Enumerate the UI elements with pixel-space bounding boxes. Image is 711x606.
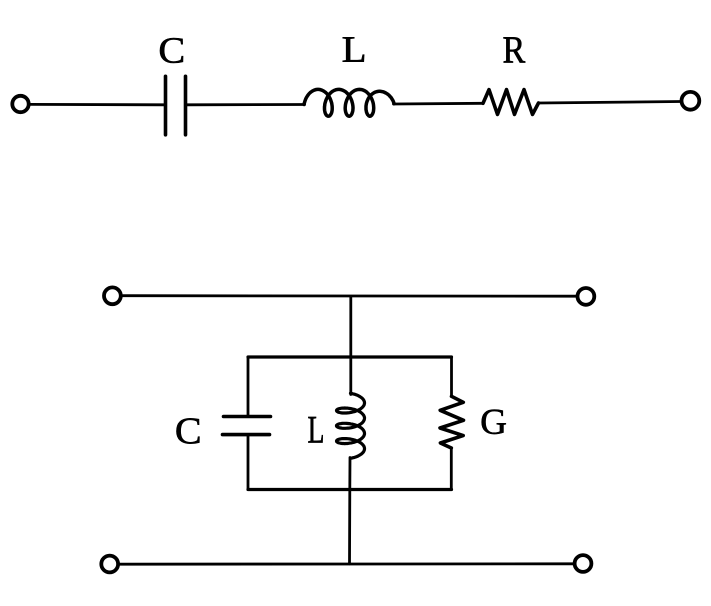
label G (bottom circuit) <box>482 410 506 434</box>
label R (top circuit) <box>504 37 526 62</box>
label C (bottom circuit) <box>177 418 200 443</box>
wire: top stem from rail to parallel network <box>349 297 352 357</box>
label L (top circuit) <box>343 37 364 61</box>
wire: right branch lower segment (resistor to bottom bus) <box>450 448 453 490</box>
terminal right (top circuit) <box>682 92 700 110</box>
inductor L (series, 3-loop coil) <box>304 89 394 116</box>
resistor G (shunt vertical zigzag) <box>440 396 464 448</box>
terminal bottom-left (bottom circuit) <box>101 556 118 573</box>
wire: middle branch lower segment (inductor to bottom bus) <box>348 458 351 490</box>
terminal bottom-right (bottom circuit) <box>575 555 592 572</box>
wire: inductor L to resistor R <box>394 102 484 105</box>
label L (bottom circuit) <box>308 417 322 443</box>
wire: bottom stem from parallel network to bottom rail <box>348 490 351 564</box>
wire: left branch lower segment (capacitor to bottom bus) <box>247 435 250 490</box>
wire: resistor R to right terminal <box>539 102 682 104</box>
wire: left terminal to capacitor C <box>29 103 164 106</box>
wire: middle branch upper segment (to inductor) <box>349 357 352 395</box>
wire: bottom bus bar of parallel network <box>248 488 452 491</box>
resistor R (series zigzag) <box>483 90 539 115</box>
wire: capacitor C to inductor L <box>187 103 305 106</box>
wire: bottom rail <box>119 562 574 565</box>
label C (top circuit) <box>160 38 183 63</box>
terminal top-left (bottom circuit) <box>104 287 121 304</box>
terminal left (top circuit) <box>12 96 28 112</box>
capacitor C (shunt, horizontal plates) <box>224 415 271 419</box>
wire: top rail <box>121 294 576 297</box>
wire: right branch upper segment (to resistor G) <box>450 357 453 396</box>
wire: left branch upper segment (to capacitor) <box>247 357 250 417</box>
terminal top-right (bottom circuit) <box>578 288 595 305</box>
inductor L (shunt, 3-loop vertical coil) <box>337 393 365 458</box>
wire: top bus bar of parallel network <box>248 355 452 358</box>
capacitor C (series, vertical plates) <box>164 76 168 135</box>
